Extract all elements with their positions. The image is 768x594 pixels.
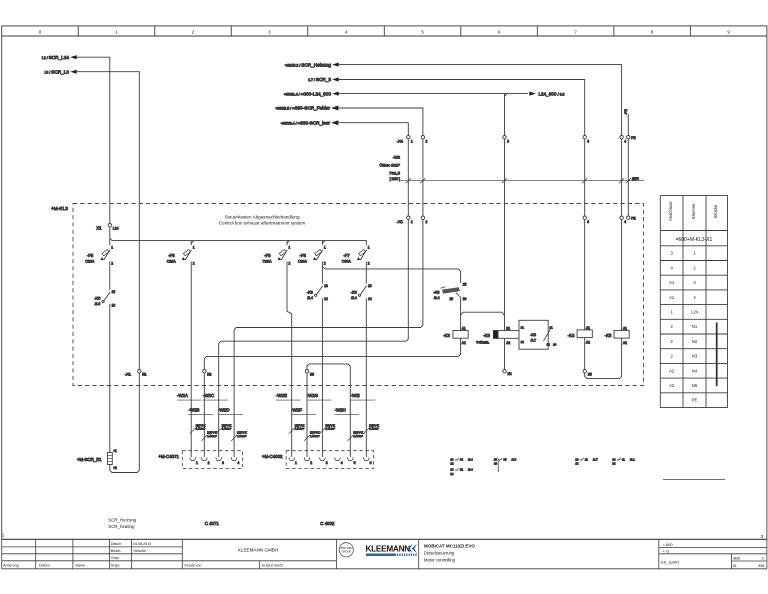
circuit breaker -F5 C20A bbox=[85, 246, 113, 266]
wire SCR_L24 from arrow to X1-L24: horizontal then down at x=109.8 bbox=[77, 57, 110, 223]
svg-text:L24_600 / 3.8: L24_600 / 3.8 bbox=[539, 91, 565, 96]
svg-text:Control box exhaust aftertreat: Control box exhaust aftertreatment syste… bbox=[219, 220, 306, 225]
KLEEMANN logo blue underline bar bbox=[366, 554, 396, 557]
svg-text:12: 12 bbox=[547, 343, 551, 347]
svg-text:2: 2 bbox=[192, 30, 195, 35]
terminal -X4 pin PE bbox=[627, 136, 630, 139]
svg-text:-X4: -X4 bbox=[397, 139, 404, 144]
terminal -X1 pin 2 bbox=[421, 216, 424, 219]
svg-text:-K6: -K6 bbox=[483, 333, 490, 338]
circuit breaker -F9 C20A bbox=[263, 246, 291, 266]
svg-text:-X1: -X1 bbox=[125, 372, 132, 377]
bus tap to F6 bbox=[191, 241, 194, 246]
cable -W2I type label H07V-K 1,5mm2 bbox=[363, 423, 379, 433]
svg-text:+M-KL3: +M-KL3 bbox=[51, 206, 68, 212]
svg-text:-F5: -F5 bbox=[87, 253, 94, 258]
cable -W2 Olflex 401P 7G1,5 [M20] label bbox=[379, 154, 400, 181]
svg-text:1: 1 bbox=[289, 246, 291, 250]
svg-text:11: 11 bbox=[550, 325, 553, 329]
title block outer lines bbox=[2, 538, 767, 540]
wire source arrow SCR_3 bbox=[308, 77, 339, 82]
svg-text:7G1,5: 7G1,5 bbox=[389, 170, 401, 175]
wire F5 contact to heater element E1 bbox=[109, 304, 111, 453]
terminal -X1 N3 bbox=[305, 370, 308, 373]
svg-text:2: 2 bbox=[289, 262, 291, 266]
svg-text:-W2: -W2 bbox=[393, 154, 401, 159]
svg-text:-W2E: -W2E bbox=[276, 393, 287, 398]
svg-text:-W2C: -W2C bbox=[203, 393, 214, 398]
svg-text:-K3: -K3 bbox=[307, 289, 314, 294]
svg-text:1: 1 bbox=[368, 246, 370, 250]
svg-text:2: 2 bbox=[368, 262, 370, 266]
svg-text:1,5mm²: 1,5mm² bbox=[325, 427, 335, 431]
svg-text:-F7: -F7 bbox=[343, 253, 350, 258]
cable -W2D designator bbox=[218, 407, 243, 414]
svg-text:1: 1 bbox=[411, 220, 413, 224]
svg-text:Steuerkasten Abgasnachbehandlu: Steuerkasten Abgasnachbehandlung bbox=[224, 214, 300, 219]
cable -W2H designator bbox=[335, 407, 360, 414]
cable W2 core slash bbox=[619, 178, 624, 183]
cable -W2F designator bbox=[291, 407, 316, 414]
wire SCR_3 to X4 pin 3 bbox=[339, 80, 585, 136]
svg-text:-W2F: -W2F bbox=[291, 407, 302, 412]
cable -W2 line bbox=[401, 180, 645, 182]
svg-text:C20A: C20A bbox=[298, 260, 308, 264]
title block row lines left section bbox=[2, 546, 183, 548]
svg-text:L2 / SCR_L24: L2 / SCR_L24 bbox=[42, 55, 70, 60]
junction tick at L24_600 branch bbox=[505, 94, 508, 97]
svg-text:1: 1 bbox=[196, 461, 198, 465]
svg-text:L24: L24 bbox=[691, 309, 699, 314]
svg-text:4: 4 bbox=[624, 140, 626, 144]
svg-text:11: 11 bbox=[585, 457, 588, 461]
terminal -X1 N2 bbox=[203, 370, 206, 373]
svg-text:04.08.2014: 04.08.2014 bbox=[133, 542, 151, 546]
svg-text:-F9: -F9 bbox=[264, 253, 271, 258]
cable -W2G designator bbox=[307, 393, 332, 400]
svg-text:B1: B1 bbox=[506, 326, 510, 330]
svg-text:SCR_heating: SCR_heating bbox=[108, 524, 135, 529]
svg-text:1: 1 bbox=[324, 246, 326, 250]
svg-text:4: 4 bbox=[237, 461, 239, 465]
svg-text:N1: N1 bbox=[692, 324, 698, 329]
wire target arrow =330-SCR_leer bbox=[281, 120, 338, 125]
svg-text:4: 4 bbox=[693, 295, 696, 300]
svg-text:L3 / SCR_L0: L3 / SCR_L0 bbox=[44, 69, 69, 74]
wire X4-3 down to X1-3 bbox=[584, 139, 586, 216]
enclosure title text bbox=[219, 214, 306, 225]
wire F5 pin2 down to contact bbox=[109, 262, 111, 291]
wire K4 A2 down to X1-N5 bbox=[584, 338, 586, 370]
wire N1 down, left to heater E1 bottom bbox=[110, 373, 140, 473]
connector C4071 socket pin 3 bbox=[216, 457, 222, 460]
svg-text:-K3: -K3 bbox=[351, 289, 358, 294]
svg-text:2: 2 bbox=[426, 140, 428, 144]
wire source arrow L2/SCR_L24 bbox=[42, 55, 77, 60]
svg-text:gnye: gnye bbox=[632, 177, 639, 181]
svg-text:13: 13 bbox=[324, 284, 328, 288]
svg-text:1,5mm²: 1,5mm² bbox=[295, 427, 305, 431]
wire PE stub above X4 bbox=[627, 114, 629, 136]
svg-text:MOBICAT MC110Zi EVO: MOBICAT MC110Zi EVO bbox=[424, 543, 475, 548]
svg-text:Motor controlling: Motor controlling bbox=[424, 557, 456, 562]
svg-text:3: 3 bbox=[268, 30, 271, 35]
cable W2 core slash bbox=[502, 178, 507, 183]
wire target arrow =330-SCR_Fehler bbox=[275, 106, 338, 111]
timer relay coil -K6 t=10min bbox=[476, 326, 527, 345]
svg-text:558: 558 bbox=[758, 564, 764, 568]
svg-text:+M-SCR_E1: +M-SCR_E1 bbox=[77, 457, 102, 462]
terminal table =600+M-KL3-X1 bbox=[660, 196, 727, 408]
table bridge bar in Bruecke column bbox=[716, 323, 718, 387]
svg-text:A2: A2 bbox=[623, 341, 627, 345]
divider Ersatz/Ersetzt bbox=[259, 561, 261, 569]
svg-text:1,5mm²: 1,5mm² bbox=[310, 434, 320, 438]
svg-text:-K4: -K4 bbox=[568, 333, 575, 338]
relay coil -K5 bbox=[605, 326, 630, 345]
svg-text:C 4002: C 4002 bbox=[320, 521, 335, 526]
svg-text:L24: L24 bbox=[113, 226, 119, 230]
svg-text:22: 22 bbox=[521, 340, 525, 344]
title block right section lines bbox=[659, 547, 767, 549]
contact mirror of K4 bbox=[575, 457, 598, 461]
svg-text:0: 0 bbox=[39, 30, 42, 35]
svg-text:1: 1 bbox=[693, 251, 696, 256]
svg-text:28: 28 bbox=[463, 297, 467, 301]
svg-text:-K3: -K3 bbox=[443, 333, 450, 338]
wire X1-1 down and left (SCR_leer) to W2C / C4071 pin3 bbox=[219, 219, 409, 457]
svg-text:2: 2 bbox=[208, 461, 210, 465]
svg-text:2: 2 bbox=[111, 262, 113, 266]
svg-text:2: 2 bbox=[693, 265, 696, 270]
svg-text:6: 6 bbox=[507, 140, 509, 144]
svg-text:1: 1 bbox=[115, 30, 118, 35]
svg-text:3: 3 bbox=[326, 461, 328, 465]
svg-text:PE: PE bbox=[631, 136, 635, 140]
wire N2 down to C4071 pin2 (W2B) bbox=[203, 373, 205, 457]
svg-text:-K4: -K4 bbox=[530, 333, 536, 337]
svg-text:N2: N2 bbox=[692, 339, 698, 344]
terminal -X4 pin 1 bbox=[407, 136, 410, 139]
svg-text:2: 2 bbox=[762, 556, 764, 560]
svg-text:A1: A1 bbox=[586, 326, 590, 330]
connector C4071 socket pin 1 bbox=[190, 457, 196, 460]
svg-text:Strauße: Strauße bbox=[133, 549, 146, 553]
wire below K3 contact to connector C4002 pin3 (W2G) bbox=[321, 298, 323, 457]
terminal X1 L24 bbox=[108, 224, 111, 227]
cable W2 core slash bbox=[582, 178, 587, 183]
svg-text:Gepr.: Gepr. bbox=[111, 556, 120, 560]
svg-text:-X1: -X1 bbox=[397, 219, 404, 224]
svg-text:Dieselsteuerung: Dieselsteuerung bbox=[424, 551, 455, 556]
svg-text:-W2H: -W2H bbox=[335, 407, 346, 412]
svg-text:A2: A2 bbox=[669, 368, 675, 373]
svg-text:22: 22 bbox=[450, 472, 454, 476]
connector C4002 socket pin 4 bbox=[335, 457, 341, 460]
svg-text:=600/1.4 / =000-L24_600: =600/1.4 / =000-L24_600 bbox=[284, 91, 331, 96]
heater element +M-SCR_E1 bbox=[77, 449, 117, 470]
svg-text:-F8: -F8 bbox=[299, 253, 306, 258]
svg-text:14: 14 bbox=[324, 297, 328, 301]
svg-text:SCR_Heizung: SCR_Heizung bbox=[108, 517, 136, 522]
terminal -X1 pin 1 bbox=[407, 216, 410, 219]
svg-text:X1: X1 bbox=[96, 225, 102, 230]
svg-text:14: 14 bbox=[553, 343, 557, 347]
svg-text:Änderung: Änderung bbox=[3, 563, 19, 567]
branch chamfer from F8 to K6 timing contact line bbox=[322, 266, 325, 269]
svg-text:C20A: C20A bbox=[85, 260, 95, 264]
svg-text:A2: A2 bbox=[506, 341, 510, 345]
svg-text:21: 21 bbox=[521, 325, 525, 329]
svg-text:C30A: C30A bbox=[342, 260, 352, 264]
svg-text:4: 4 bbox=[345, 30, 348, 35]
svg-text:A1: A1 bbox=[462, 326, 466, 330]
cable W2 core slash bbox=[626, 178, 631, 183]
terminal -X4 pin 2 bbox=[421, 136, 424, 139]
cable -W2E designator bbox=[276, 393, 301, 400]
contact mirror of K5 bbox=[612, 457, 635, 461]
svg-text:A2: A2 bbox=[462, 341, 466, 345]
wire K3 A2 down and left to X1-N2 bbox=[204, 338, 460, 369]
svg-text:-PE: -PE bbox=[624, 108, 628, 114]
contact mirror of K6 bbox=[494, 457, 517, 461]
wire destination arrow L24_600 / 3.8 bbox=[529, 91, 564, 96]
terminal -X1 pin PE bbox=[627, 216, 630, 219]
wire N3 jog to W2H and down to C4002 pin2 (W2F) bbox=[307, 364, 350, 457]
connector C4002 socket pin 5 bbox=[348, 457, 354, 460]
relay contact -K3 /2.4 pins 13/14 bbox=[351, 284, 372, 301]
svg-text:9: 9 bbox=[727, 30, 730, 35]
cable -W2G type label H07V-K 1,5mm2 bbox=[320, 423, 336, 433]
cable -W2E type label H07V-K 1,5mm2 bbox=[289, 423, 305, 433]
terminal -X4 pin 6 bbox=[503, 136, 506, 139]
relay coil -K3 bbox=[443, 326, 468, 345]
svg-text:=330/2.5 / =330-SCR_Fehler: =330/2.5 / =330-SCR_Fehler bbox=[275, 106, 330, 111]
svg-text:Datum: Datum bbox=[111, 542, 122, 546]
wire SCR_Heizung to X4 pin 4 bbox=[339, 65, 622, 136]
svg-text:6: 6 bbox=[498, 30, 501, 35]
relay coil -K4 bbox=[568, 326, 593, 345]
svg-text:21: 21 bbox=[460, 468, 464, 472]
svg-text:=600+M-KL3-X1: =600+M-KL3-X1 bbox=[676, 237, 713, 243]
svg-text:A1: A1 bbox=[623, 326, 627, 330]
wire source arrow SCR_Heizung bbox=[285, 62, 339, 67]
svg-text:A1: A1 bbox=[669, 295, 675, 300]
svg-text:/2.4: /2.4 bbox=[351, 296, 357, 300]
svg-text:3: 3 bbox=[587, 140, 589, 144]
svg-text:C20A: C20A bbox=[263, 260, 273, 264]
column header band line bbox=[2, 35, 767, 37]
svg-text:GROUP: GROUP bbox=[342, 549, 352, 553]
wire K6 contact down to junction bbox=[460, 298, 462, 331]
svg-text:N1: N1 bbox=[142, 373, 146, 377]
bus tap to F9 bbox=[287, 241, 290, 246]
svg-text:Bl.: Bl. bbox=[733, 564, 737, 568]
svg-text:1,5mm²: 1,5mm² bbox=[196, 427, 206, 431]
cable -W2C designator bbox=[203, 393, 228, 400]
circuit breaker -F8 C20A bbox=[298, 246, 326, 266]
cable -W2H type label H07V-K 1,5mm2 bbox=[347, 431, 363, 441]
svg-text:2: 2 bbox=[670, 324, 673, 329]
control box enclosure +M-KL3 (dashed) bbox=[73, 204, 644, 386]
svg-text:13: 13 bbox=[368, 284, 372, 288]
svg-text:12: 12 bbox=[612, 462, 616, 466]
terminal strip reference line bbox=[663, 479, 725, 481]
svg-text:11: 11 bbox=[622, 457, 625, 461]
terminal -X1 pin 3 bbox=[583, 216, 586, 219]
wire source arrow L3/SCR_L0 bbox=[44, 69, 76, 74]
svg-text:N3: N3 bbox=[692, 354, 698, 359]
svg-text:A1: A1 bbox=[669, 280, 675, 285]
svg-text:N5: N5 bbox=[588, 373, 592, 377]
text SCR_Heizung / SCR_heating bbox=[108, 517, 136, 529]
svg-text:4: 4 bbox=[341, 461, 343, 465]
svg-text:2: 2 bbox=[426, 220, 428, 224]
svg-text:2: 2 bbox=[193, 262, 195, 266]
cable -W2A designator bbox=[177, 393, 202, 400]
svg-text:1: 1 bbox=[295, 461, 297, 465]
wire X4-1 down to X1-1 bbox=[407, 139, 409, 216]
wire L24 bus from X1-L24 feeding breakers bbox=[110, 227, 367, 245]
svg-text:-K6: -K6 bbox=[433, 289, 440, 294]
terminal -X4 pin 4 bbox=[620, 136, 623, 139]
svg-text:C20A: C20A bbox=[167, 260, 177, 264]
relay contact -K3 /2.4 pins 13/14 bbox=[307, 284, 328, 301]
connector C4071 socket pin 2 bbox=[202, 457, 208, 460]
KLEEMANN logo blue chevrons bbox=[407, 544, 412, 554]
wire K6 A2 down to X1-N4 bbox=[504, 338, 506, 369]
connector +M-C4002 (dashed box) bbox=[286, 451, 373, 469]
svg-text:N4: N4 bbox=[508, 372, 512, 376]
svg-text:3: 3 bbox=[670, 251, 673, 256]
svg-text:Datum: Datum bbox=[39, 563, 50, 567]
svg-text:26: 26 bbox=[449, 297, 453, 301]
WIRTGEN GROUP round logo bbox=[339, 543, 353, 557]
contact mirror of K3 bbox=[450, 457, 473, 461]
svg-text:Ersatz von: Ersatz von bbox=[185, 563, 202, 567]
svg-text:-W2D: -W2D bbox=[218, 407, 229, 412]
svg-text:Brücke: Brücke bbox=[713, 204, 718, 218]
wire SCR_leer to X4 pin 1 bbox=[339, 123, 409, 136]
svg-text:3: 3 bbox=[693, 280, 696, 285]
svg-text:N5: N5 bbox=[692, 383, 698, 388]
svg-text:+1: +1 bbox=[113, 449, 117, 453]
svg-text:KLEEMANN GMBH: KLEEMANN GMBH bbox=[238, 548, 278, 553]
svg-text:2: 2 bbox=[310, 461, 312, 465]
svg-text:Klemme: Klemme bbox=[691, 203, 696, 219]
svg-text:C 4071: C 4071 bbox=[205, 521, 220, 526]
svg-text:+M-C4071: +M-C4071 bbox=[158, 454, 179, 459]
svg-text:/3.4: /3.4 bbox=[434, 296, 440, 300]
svg-text:1,5mm²: 1,5mm² bbox=[369, 427, 379, 431]
connector C4002 socket pin 2 bbox=[304, 457, 310, 460]
wire F6 pin2 down to connector C4071 pin1 (W2A) bbox=[190, 262, 192, 458]
wire SCR_L0 from arrow down to X1-N1 terminal bbox=[77, 72, 140, 370]
svg-text:PE: PE bbox=[631, 217, 635, 221]
connector C4002 socket pin 1 bbox=[289, 457, 295, 460]
svg-text:5: 5 bbox=[421, 30, 424, 35]
wire N5 to K5 A2 return bbox=[585, 338, 622, 379]
svg-text:A2: A2 bbox=[669, 383, 675, 388]
svg-text:=110/3.2 / SCR_Heizung: =110/3.2 / SCR_Heizung bbox=[285, 62, 331, 67]
bus tap to F8 bbox=[322, 241, 325, 246]
svg-text:1: 1 bbox=[670, 309, 673, 314]
wire L24_600 to X4 pin 6 with branch bbox=[339, 94, 505, 136]
svg-text:N3: N3 bbox=[310, 373, 314, 377]
relay contact -K5 under F5 bbox=[94, 290, 115, 308]
svg-text:Urspr.: Urspr. bbox=[111, 563, 121, 567]
svg-text:2: 2 bbox=[670, 339, 673, 344]
cable -W2B designator bbox=[189, 407, 214, 414]
wire F9 pin2 down with jog to W2E bbox=[287, 262, 292, 458]
svg-text:/1.7: /1.7 bbox=[593, 457, 598, 461]
connector C4071 socket pin 4 bbox=[231, 457, 237, 460]
bus tap to F5 bbox=[109, 238, 111, 245]
svg-text:Blatt: Blatt bbox=[733, 556, 740, 560]
svg-text:Anschluss: Anschluss bbox=[668, 202, 673, 222]
circuit breaker -F6 C20A bbox=[167, 246, 195, 266]
svg-text:6: 6 bbox=[370, 461, 372, 465]
svg-text:4: 4 bbox=[624, 220, 626, 224]
wire branch to arrow L24_600/3.8 bbox=[505, 93, 529, 95]
wire F8 pin2 down to contact K3 bbox=[321, 262, 323, 284]
svg-text:4: 4 bbox=[670, 265, 673, 270]
svg-text:-K5: -K5 bbox=[605, 333, 612, 338]
cable -W2A type label H07V-K 1,5mm2 bbox=[190, 423, 206, 433]
svg-text:13: 13 bbox=[460, 457, 464, 461]
wire X4-4 down to X1-4 bbox=[621, 139, 623, 216]
wire X4-2 down to X1-2 bbox=[422, 139, 424, 216]
svg-text:-W2I: -W2I bbox=[351, 393, 360, 398]
svg-text:-W2A: -W2A bbox=[177, 393, 188, 398]
svg-text:Bearb.: Bearb. bbox=[111, 549, 122, 553]
svg-text:3: 3 bbox=[761, 534, 764, 539]
cable -W2D type label H07V-K 1,5mm2 bbox=[231, 431, 247, 441]
terminal -X1 pin 4 bbox=[620, 216, 623, 219]
cable -W2B type label H07V-K 1,5mm2 bbox=[201, 431, 217, 441]
svg-text:ES_sp001: ES_sp001 bbox=[661, 559, 680, 564]
connector C4002 socket pin 3 bbox=[320, 457, 326, 460]
wire from F8 branch to K6 timing contact bbox=[325, 269, 461, 283]
svg-text:/3.1: /3.1 bbox=[630, 457, 635, 461]
wire source arrow =000-L24_600 bbox=[284, 91, 339, 96]
wire below K3 contact to connector C4002 pin6 (W2I) bbox=[365, 298, 367, 457]
svg-text:N2: N2 bbox=[207, 373, 211, 377]
cable -W2C type label H07V-K 1,5mm2 bbox=[216, 423, 232, 433]
svg-text:5: 5 bbox=[354, 461, 356, 465]
svg-text:16: 16 bbox=[112, 304, 116, 308]
title block column dividers bbox=[35, 539, 37, 569]
page marker 1 bottom left bbox=[2, 532, 5, 537]
svg-text:7: 7 bbox=[574, 30, 577, 35]
svg-text:1: 1 bbox=[193, 246, 195, 250]
svg-text:/2.6: /2.6 bbox=[95, 302, 101, 306]
svg-text:N4: N4 bbox=[692, 368, 698, 373]
svg-text:2: 2 bbox=[324, 262, 326, 266]
wire X4-PE down to X1-PE bbox=[627, 139, 629, 216]
svg-text:25: 25 bbox=[463, 283, 467, 287]
svg-text:15: 15 bbox=[503, 457, 507, 461]
svg-text:/2.4: /2.4 bbox=[468, 457, 473, 461]
wire SCR_Fehler to X4 pin 2 bbox=[339, 108, 423, 136]
svg-text:/2.4: /2.4 bbox=[307, 296, 313, 300]
svg-text:+2: +2 bbox=[113, 466, 117, 470]
svg-text:WIRTGEN: WIRTGEN bbox=[340, 546, 352, 550]
wire X1-2 down and left (SCR_Fehler) to W2D / C4071 pin4 bbox=[234, 219, 423, 457]
svg-text:1,5mm²: 1,5mm² bbox=[222, 427, 232, 431]
cable -W2I designator bbox=[351, 393, 376, 400]
svg-text:/3.5: /3.5 bbox=[512, 457, 517, 461]
